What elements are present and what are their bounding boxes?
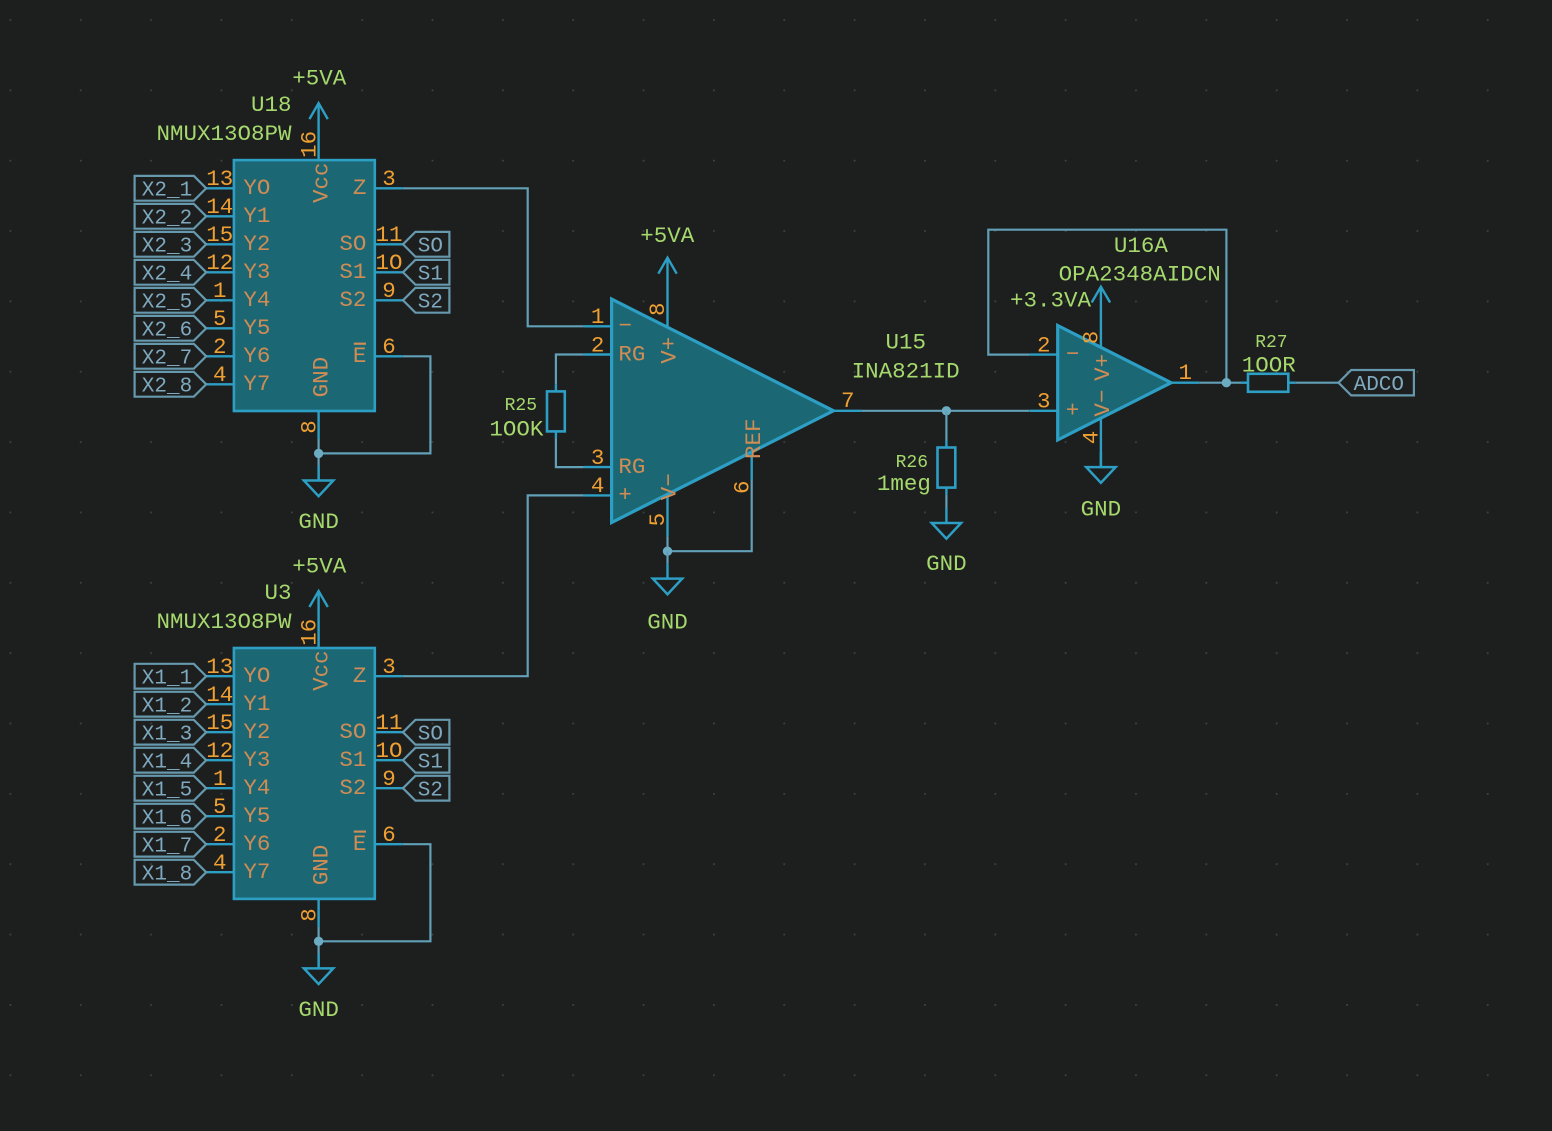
U3 pin 8 (GND)	[296, 845, 334, 927]
svg-text:14: 14	[206, 682, 233, 708]
U15 pin 4 (+)	[584, 473, 632, 508]
power symbol +5VA (U18)	[292, 66, 347, 161]
svg-text:X2_7: X2_7	[142, 348, 192, 371]
ground symbol (U16A)	[1081, 452, 1122, 522]
U18 pin 16 (Vcc)	[296, 131, 334, 203]
svg-text:U15: U15	[885, 329, 926, 355]
U18 pin 1 (Y4)	[206, 278, 271, 313]
svg-text:SO: SO	[339, 231, 366, 257]
svg-text:X2_6: X2_6	[142, 320, 192, 343]
wire U3 Z output to U15 pin 4	[403, 495, 584, 676]
svg-text:V−: V−	[1090, 390, 1116, 417]
net label S0 (U18)	[403, 232, 449, 259]
svg-text:1meg: 1meg	[877, 471, 931, 497]
U18 pin 14 (Y1)	[206, 194, 271, 229]
net label X1_7	[135, 832, 207, 859]
wire U18 pin 8 to ground	[318, 439, 320, 481]
wire U15 pin 2 to R25	[556, 355, 584, 385]
power symbol +5VA (U3)	[292, 554, 347, 649]
svg-text:S2: S2	[339, 287, 366, 313]
svg-text:Y2: Y2	[243, 719, 270, 745]
power symbol +5VA (U15)	[640, 223, 695, 274]
svg-text:U18: U18	[251, 92, 292, 118]
svg-text:X1_2: X1_2	[142, 696, 192, 719]
U18 pin 6 (E, active low)	[353, 334, 403, 369]
junction output / R26 node	[942, 406, 951, 415]
svg-text:+3.3VA: +3.3VA	[1010, 287, 1092, 313]
svg-text:+: +	[1066, 398, 1080, 424]
U3 pin 9 (S2)	[339, 766, 402, 801]
U3 pin 6 (E, active low)	[353, 822, 403, 857]
net label X2_6	[135, 316, 207, 343]
svg-text:11: 11	[375, 710, 402, 736]
svg-text:1: 1	[591, 304, 605, 330]
svg-text:X2_3: X2_3	[142, 236, 192, 259]
svg-text:Y7: Y7	[243, 859, 270, 885]
svg-text:1O: 1O	[375, 250, 402, 276]
U18 pin 11 (S0)	[339, 222, 402, 257]
svg-text:5: 5	[213, 794, 227, 820]
U18 pin 3 (Z)	[353, 166, 403, 201]
svg-text:Y4: Y4	[243, 287, 270, 313]
svg-text:X2_4: X2_4	[142, 264, 192, 287]
U16A pin 4 (V-)	[1079, 390, 1116, 468]
net label X2_3	[135, 232, 207, 259]
wire R26 to ground	[945, 495, 947, 508]
svg-text:X2_1: X2_1	[142, 180, 192, 203]
svg-text:8: 8	[296, 908, 322, 922]
svg-text:U16A: U16A	[1114, 233, 1169, 259]
junction U16A output node	[1222, 378, 1231, 387]
svg-text:NMUX13O8PW: NMUX13O8PW	[156, 609, 292, 635]
svg-text:X1_3: X1_3	[142, 724, 192, 747]
svg-text:X2_5: X2_5	[142, 292, 192, 315]
svg-text:S1: S1	[418, 264, 443, 287]
wire U15 pin 6 REF to ground junction	[668, 480, 752, 551]
svg-text:NMUX13O8PW: NMUX13O8PW	[156, 121, 292, 147]
U18 pin 5 (Y5)	[206, 306, 271, 341]
svg-text:8: 8	[296, 420, 322, 434]
U3 pin 4 (Y7)	[206, 850, 271, 885]
svg-text:12: 12	[206, 738, 233, 764]
svg-text:Y5: Y5	[243, 803, 270, 829]
U18 pin 9 (S2)	[339, 278, 402, 313]
svg-text:11: 11	[375, 222, 402, 248]
U18 pin 4 (Y7)	[206, 362, 271, 397]
U3 pin 3 (Z)	[353, 654, 403, 689]
multiplexer U18 NMUX1308PW body	[234, 160, 375, 411]
svg-text:R26: R26	[896, 453, 928, 473]
svg-text:Y6: Y6	[243, 343, 270, 369]
net label X2_2	[135, 204, 207, 231]
net label X1_4	[135, 748, 207, 775]
net label X1_5	[135, 776, 207, 803]
svg-text:13: 13	[206, 654, 233, 680]
svg-text:Z: Z	[353, 175, 367, 201]
wire U18 Z output to U15 pin 1	[403, 188, 584, 326]
svg-text:4: 4	[213, 362, 227, 388]
U18 pin 13 (Y0)	[206, 166, 271, 201]
svg-text:12: 12	[206, 250, 233, 276]
svg-text:−: −	[618, 313, 632, 339]
U3 pin 10 (S1)	[339, 738, 402, 773]
U3 pin 2 (Y6)	[206, 822, 271, 857]
wire U3 pin 8 to ground	[318, 927, 320, 969]
svg-text:6: 6	[382, 334, 396, 360]
ground symbol (U3)	[298, 953, 339, 1023]
svg-text:S2: S2	[418, 780, 443, 803]
junction U3 ground node	[314, 937, 323, 946]
resistor R25	[547, 384, 565, 438]
wire junction to R26	[945, 411, 947, 441]
svg-text:S2: S2	[418, 292, 443, 315]
svg-text:E: E	[353, 343, 367, 369]
net label S1 (U3)	[403, 748, 449, 775]
svg-text:−: −	[1066, 341, 1080, 367]
svg-text:ADCO: ADCO	[1354, 374, 1404, 397]
svg-text:4: 4	[1079, 431, 1105, 445]
net label X2_5	[135, 288, 207, 315]
power symbol +3.3VA (U16A)	[1010, 287, 1110, 314]
svg-text:OPA2348AIDCN: OPA2348AIDCN	[1059, 261, 1221, 287]
wire U15 output to U16A pin 3	[862, 410, 1030, 412]
U16A pin 2 (-)	[1030, 332, 1080, 367]
svg-text:Vcc: Vcc	[308, 650, 334, 691]
svg-text:Y3: Y3	[243, 259, 270, 285]
svg-text:8: 8	[1079, 331, 1105, 345]
net label X2_4	[135, 260, 207, 287]
resistor R26	[938, 441, 956, 495]
U16A pin 1 (output)	[1171, 360, 1199, 386]
svg-text:8: 8	[645, 302, 671, 316]
svg-text:Y2: Y2	[243, 231, 270, 257]
svg-text:15: 15	[206, 222, 233, 248]
svg-text:X1_6: X1_6	[142, 808, 192, 831]
wire U3 E to ground net	[319, 844, 431, 941]
svg-text:V−: V−	[657, 473, 683, 500]
svg-text:Y4: Y4	[243, 775, 270, 801]
svg-text:3: 3	[1037, 389, 1051, 415]
svg-text:Y5: Y5	[243, 315, 270, 341]
svg-text:5: 5	[213, 306, 227, 332]
svg-text:14: 14	[206, 194, 233, 220]
svg-text:+5VA: +5VA	[640, 223, 695, 249]
U15 pin 1 (-)	[584, 304, 632, 339]
svg-text:3: 3	[382, 654, 396, 680]
U18 pin 8 (GND)	[296, 357, 334, 439]
net label S0 (U3)	[403, 720, 449, 747]
svg-text:X1_4: X1_4	[142, 752, 192, 775]
svg-text:1O: 1O	[375, 738, 402, 764]
svg-text:6: 6	[382, 822, 396, 848]
svg-text:Y1: Y1	[243, 691, 270, 717]
wire R25 to U15 pin 3	[556, 438, 584, 467]
svg-text:INA821ID: INA821ID	[852, 358, 960, 384]
svg-text:3: 3	[591, 445, 605, 471]
svg-text:2: 2	[213, 334, 227, 360]
wire U15 pin 5 to ground junction	[666, 536, 668, 551]
wire R27 to ADC0	[1295, 382, 1338, 384]
svg-text:Y1: Y1	[243, 203, 270, 229]
net label X2_8	[135, 372, 207, 399]
svg-text:+5VA: +5VA	[292, 554, 347, 580]
svg-text:5: 5	[645, 513, 671, 527]
U15 pin 6 (REF)	[729, 418, 766, 494]
net label X2_1	[135, 176, 207, 203]
svg-text:1: 1	[1179, 360, 1193, 386]
U3 pin 11 (S0)	[339, 710, 402, 745]
svg-text:3: 3	[382, 166, 396, 192]
U18 pin 2 (Y6)	[206, 334, 271, 369]
svg-text:9: 9	[382, 766, 396, 792]
U18 pin 15 (Y2)	[206, 222, 271, 257]
net label S2 (U18)	[403, 288, 449, 315]
svg-text:1OOR: 1OOR	[1242, 352, 1296, 378]
svg-text:X1_5: X1_5	[142, 780, 192, 803]
net label X1_8	[135, 860, 207, 887]
svg-text:Z: Z	[353, 663, 367, 689]
svg-text:X1_7: X1_7	[142, 836, 192, 859]
svg-text:2: 2	[591, 332, 605, 358]
svg-text:RG: RG	[618, 454, 645, 480]
svg-text:GND: GND	[1081, 496, 1122, 522]
svg-text:2: 2	[1037, 332, 1051, 358]
svg-text:SO: SO	[418, 724, 443, 747]
svg-text:+5VA: +5VA	[292, 66, 347, 92]
wire U16A feedback loop	[988, 230, 1226, 383]
svg-text:SO: SO	[339, 719, 366, 745]
net label X1_2	[135, 692, 207, 719]
svg-text:1: 1	[213, 278, 227, 304]
U16A pin 3 (+)	[1030, 389, 1080, 424]
wire junction down to ground	[666, 551, 668, 563]
svg-text:GND: GND	[298, 509, 339, 535]
op-amp U15 INA821ID body	[612, 299, 834, 522]
net label X1_1	[135, 664, 207, 691]
wire U18 E to ground net	[319, 356, 431, 453]
svg-text:U3: U3	[264, 580, 291, 606]
svg-text:REF: REF	[741, 418, 767, 459]
svg-text:X1_1: X1_1	[142, 668, 192, 691]
junction U18 ground node	[314, 449, 323, 458]
svg-text:X1_8: X1_8	[142, 864, 192, 887]
U3 pin 12 (Y3)	[206, 738, 271, 773]
ground symbol (U18)	[298, 466, 339, 536]
junction U15 ground node	[663, 547, 672, 556]
svg-text:GND: GND	[298, 997, 339, 1023]
svg-text:Vcc: Vcc	[308, 162, 334, 203]
net label X1_3	[135, 720, 207, 747]
svg-text:Y7: Y7	[243, 371, 270, 397]
U18 pin 10 (S1)	[339, 250, 402, 285]
U3 pin 15 (Y2)	[206, 710, 271, 745]
ground symbol (U15)	[647, 564, 688, 636]
svg-text:R25: R25	[505, 396, 537, 416]
U15 pin 2 (RG)	[584, 332, 646, 367]
U3 pin 13 (Y0)	[206, 654, 271, 689]
svg-text:E: E	[353, 831, 367, 857]
svg-text:Y6: Y6	[243, 831, 270, 857]
svg-text:RG: RG	[618, 341, 645, 367]
U3 pin 16 (Vcc)	[296, 619, 334, 691]
svg-text:V+: V+	[1090, 354, 1116, 381]
svg-text:X2_2: X2_2	[142, 208, 192, 231]
U18 pin 12 (Y3)	[206, 250, 271, 285]
wire U16A output to R27	[1199, 382, 1241, 384]
svg-text:4: 4	[213, 850, 227, 876]
U3 pin 1 (Y4)	[206, 766, 271, 801]
svg-text:YO: YO	[243, 663, 270, 689]
svg-text:13: 13	[206, 166, 233, 192]
svg-text:9: 9	[382, 278, 396, 304]
net label X1_6	[135, 804, 207, 831]
net label S1 (U18)	[403, 260, 449, 287]
resistor R27	[1241, 374, 1295, 392]
svg-text:S1: S1	[339, 259, 366, 285]
U15 pin 3 (RG)	[584, 445, 646, 480]
op-amp U16A OPA2348AIDCN body	[1058, 326, 1171, 440]
svg-text:V+: V+	[657, 337, 683, 364]
ground symbol (R26)	[926, 508, 967, 577]
U15 pin 5 (V-)	[645, 473, 682, 536]
svg-text:R27: R27	[1255, 333, 1287, 353]
multiplexer U3 NMUX1308PW body	[234, 648, 375, 899]
svg-text:S2: S2	[339, 775, 366, 801]
net label ADC0	[1339, 370, 1414, 397]
svg-text:X2_8: X2_8	[142, 376, 192, 399]
svg-text:SO: SO	[418, 236, 443, 259]
svg-text:15: 15	[206, 710, 233, 736]
U15 pin 8 (V+)	[645, 258, 682, 364]
svg-text:S1: S1	[418, 752, 443, 775]
svg-text:7: 7	[841, 388, 855, 414]
svg-text:S1: S1	[339, 747, 366, 773]
svg-text:+: +	[618, 482, 632, 508]
svg-text:GND: GND	[647, 610, 688, 636]
svg-text:2: 2	[213, 822, 227, 848]
svg-text:Y3: Y3	[243, 747, 270, 773]
svg-text:YO: YO	[243, 175, 270, 201]
net label S2 (U3)	[403, 776, 449, 803]
svg-text:4: 4	[591, 473, 605, 499]
U3 pin 5 (Y5)	[206, 794, 271, 829]
svg-text:GND: GND	[926, 551, 967, 577]
svg-text:1OOK: 1OOK	[489, 417, 544, 443]
U3 pin 14 (Y1)	[206, 682, 271, 717]
svg-text:1: 1	[213, 766, 227, 792]
net label X2_7	[135, 344, 207, 371]
svg-text:GND: GND	[308, 845, 334, 886]
U16A pin 8 (V+)	[1079, 287, 1116, 381]
U15 pin 7 (output)	[834, 388, 862, 414]
svg-text:GND: GND	[308, 357, 334, 398]
